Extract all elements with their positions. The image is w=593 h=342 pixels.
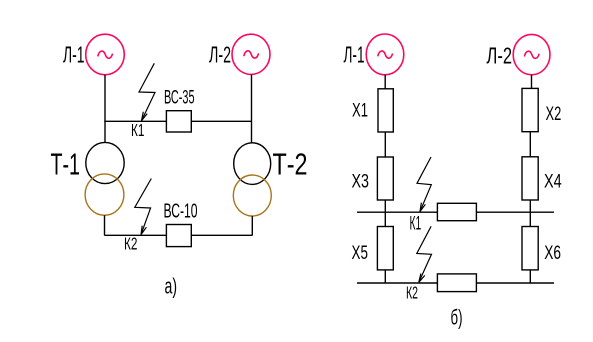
transformer T-2 primary winding [234,143,271,185]
wire bus K1 right segment [191,120,251,122]
fault arrow K2 (lightning bolt, left diagram) [135,179,152,235]
transformer T-1 primary winding [86,142,124,183]
wire G4 to X2 [531,75,533,89]
fault arrow K2 (lightning bolt, right diagram) [417,226,432,282]
wire G3 to X1 [384,75,386,89]
wire T-2 to bus K2 [251,216,253,235]
svg-text:Т-2: Т-2 [273,148,308,182]
fault arrow K1 (lightning bolt, left diagram) [139,63,155,120]
svg-text:К1: К1 [410,213,422,234]
svg-text:ВС-10: ВС-10 [164,201,198,223]
reactor X1 [378,89,393,132]
wire T-1 to bus K2 [104,215,106,235]
wire G1 to T-1 (through node K1 bus) [104,75,106,143]
svg-text:Х4: Х4 [544,171,562,193]
wire bus K1 to X5 [384,212,386,226]
reactor X4 [522,157,538,200]
reactor X2 [522,88,538,131]
generator G3 (source Л-1, right diagram) [366,34,404,75]
wire bus K2 left segment [104,234,166,236]
svg-text:К2: К2 [124,234,137,254]
wire X4 to bus K1 [529,200,531,212]
svg-text:ВС-35: ВС-35 [164,87,195,109]
svg-text:б): б) [451,307,463,330]
wire bus K2 right segment [191,234,252,236]
wire bus K1 left segment (right diagram) [357,211,437,213]
wire bus K1 to X6 [529,212,531,226]
svg-text:К2: К2 [406,283,418,303]
wire bus K1 right segment (right diagram) [476,211,554,213]
wire X1 to X3 [384,132,386,157]
wire X2 to X4 [529,132,531,157]
svg-text:Х3: Х3 [352,171,370,193]
reactor X6 [522,227,538,270]
svg-text:Х2: Х2 [546,103,562,125]
wire bus K2 right segment (right diagram) [476,282,554,284]
svg-text:Л-2: Л-2 [487,42,513,68]
fault arrow K1 (lightning bolt, right diagram) [417,157,431,212]
generator G2 (source Л-2, left diagram) [232,34,270,74]
transformer T-2 secondary winding [233,175,271,216]
svg-text:Т-1: Т-1 [51,148,81,182]
wire bus K1 left segment [104,120,166,122]
svg-text:Х5: Х5 [352,242,369,264]
svg-text:Л-2: Л-2 [209,42,231,68]
generator G4 (source Л-2, right diagram) [513,34,550,74]
reactor X5 [377,227,393,270]
tie reactor on bus K2 [437,274,476,292]
generator G1 (source Л-1, left diagram) [86,34,125,75]
wire bus K2 left segment (right diagram) [357,282,437,284]
transformer T-1 secondary winding [85,174,124,215]
breaker BC-35 [166,111,191,132]
wire G2 to T-2 [251,74,253,143]
wire X5 to bus K2 [384,270,386,283]
reactor X3 [377,157,393,200]
svg-text:Л-1: Л-1 [63,42,85,68]
svg-text:а): а) [165,274,178,299]
svg-text:Х1: Х1 [352,100,368,122]
wire X3 to bus K1 [384,200,386,212]
breaker BC-10 [166,225,191,247]
svg-text:Л-1: Л-1 [344,42,365,68]
svg-text:К1: К1 [131,120,144,140]
tie reactor on bus K1 [437,203,476,220]
svg-text:Х6: Х6 [544,242,561,264]
wire X6 to bus K2 [529,270,531,283]
